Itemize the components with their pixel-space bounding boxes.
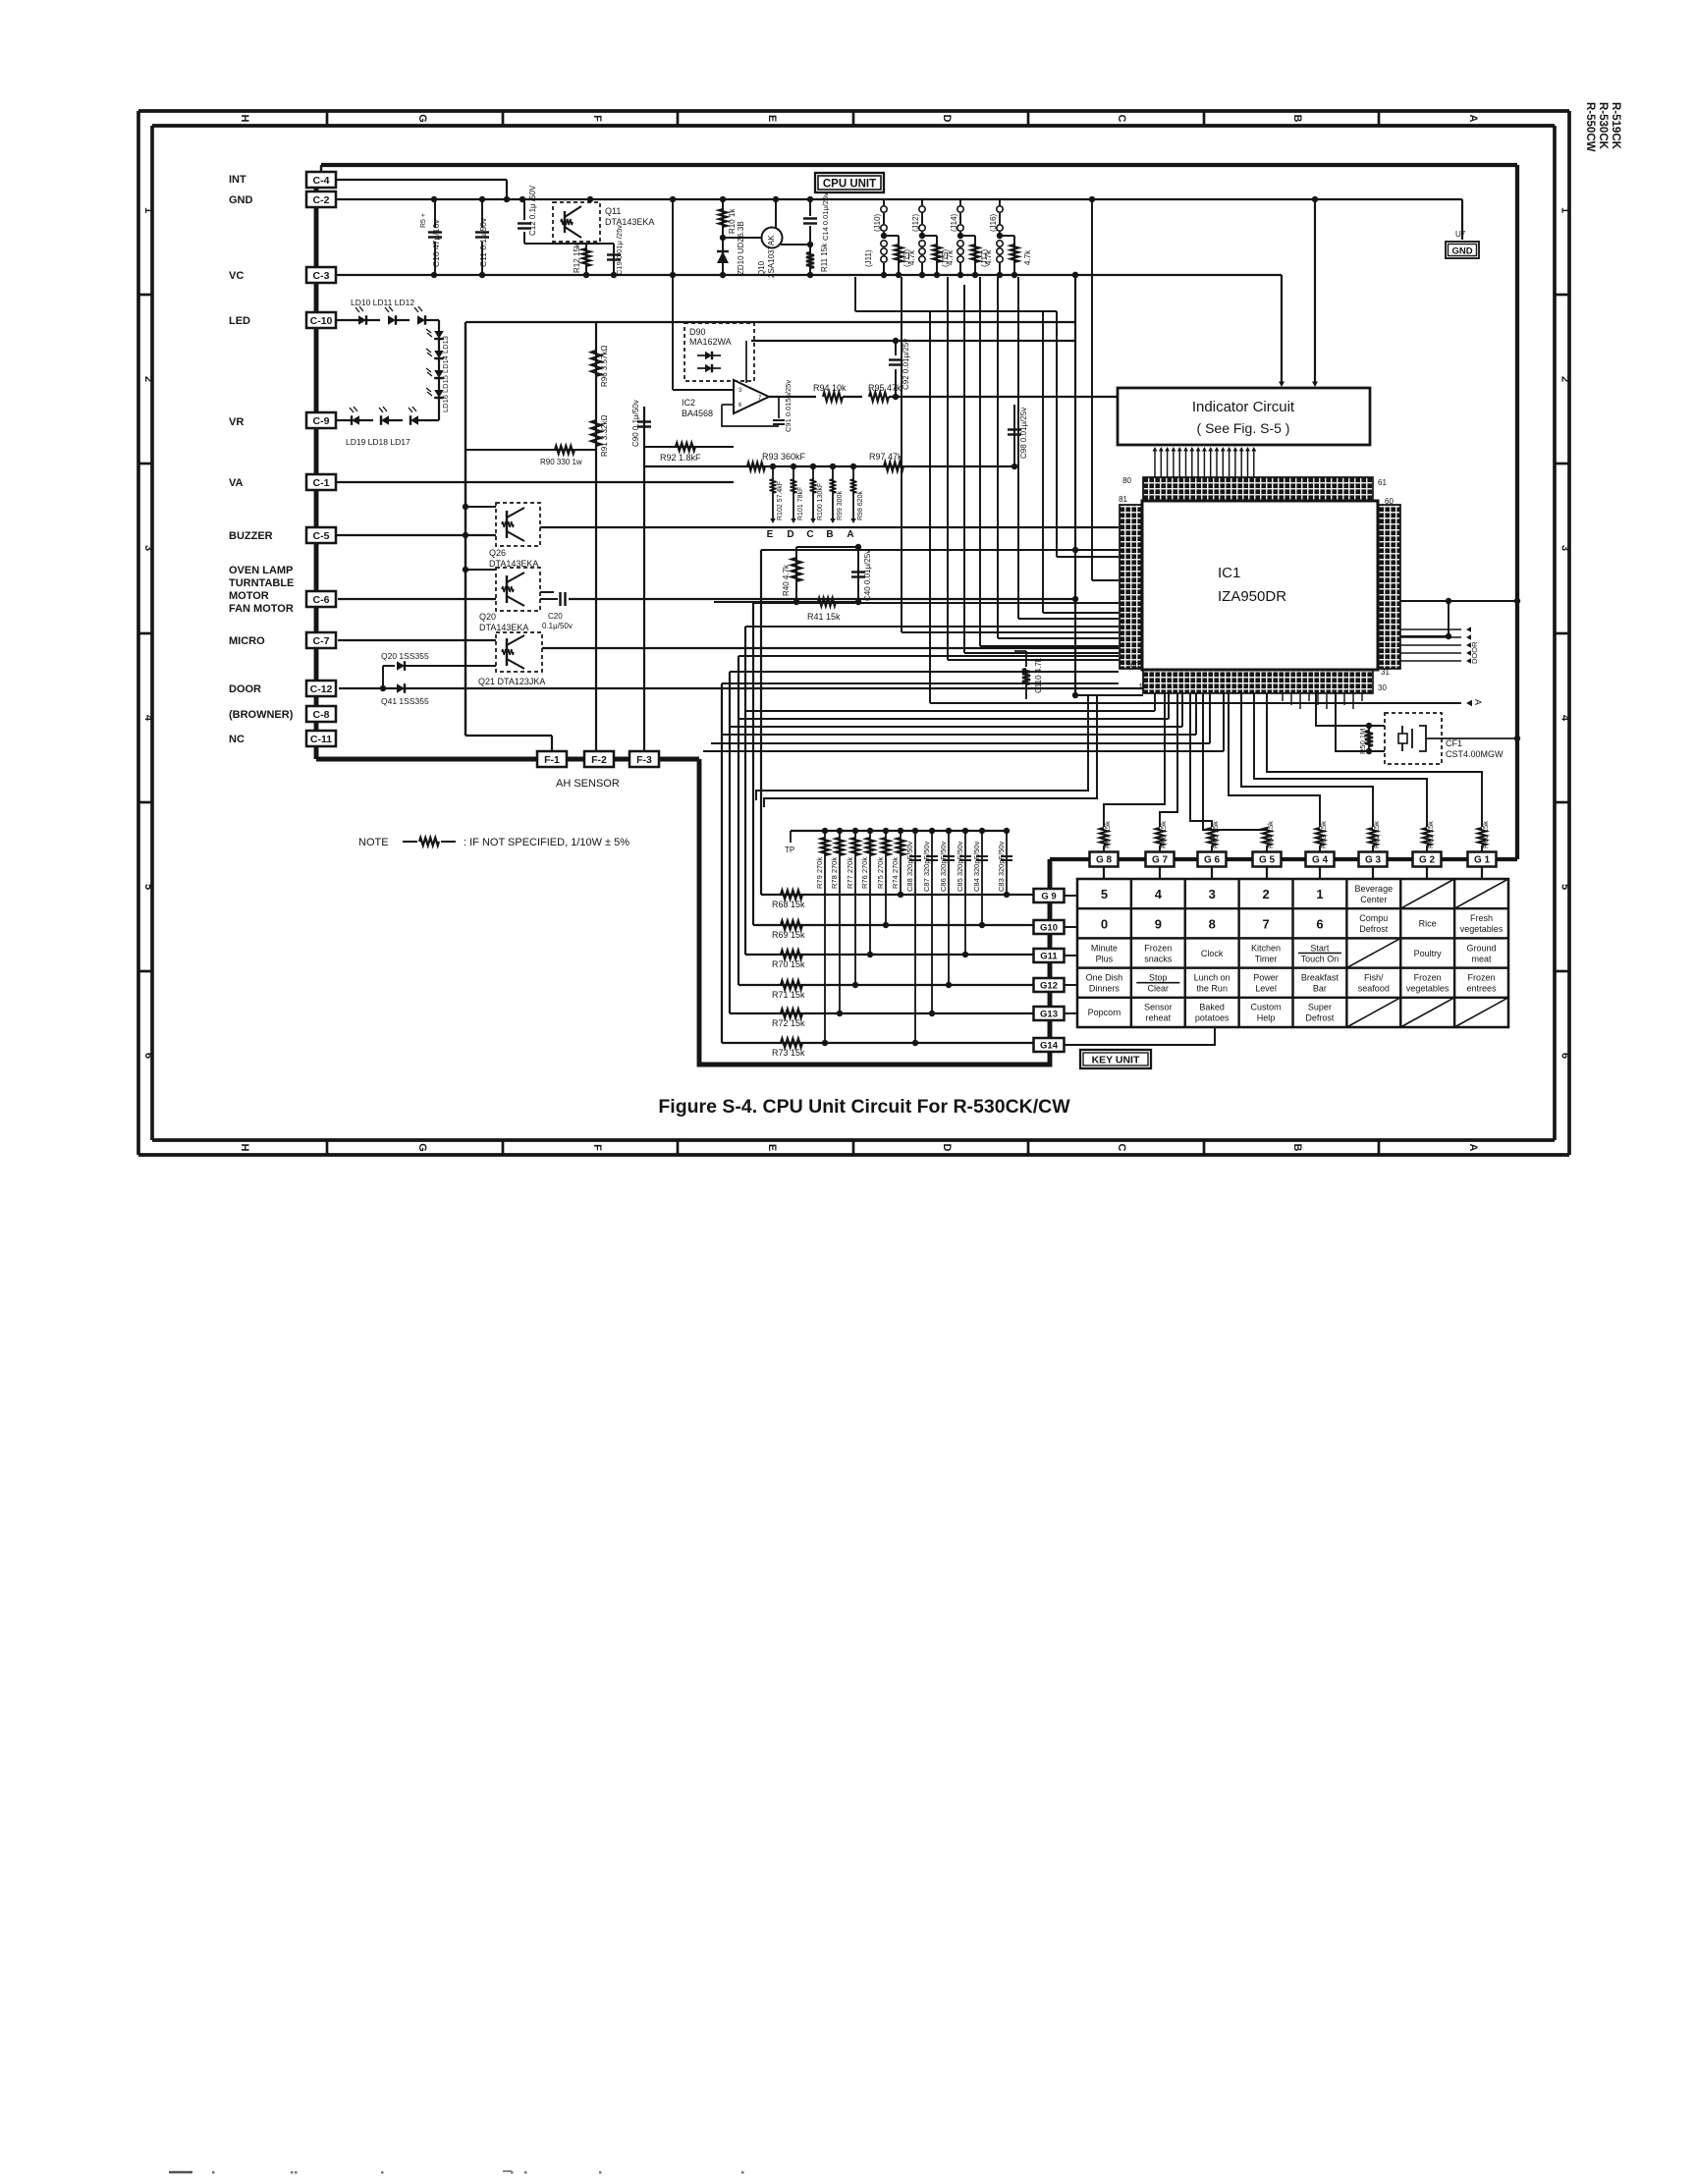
svg-text:Rice: Rice	[1419, 919, 1437, 929]
svg-text:DOOR: DOOR	[1470, 641, 1479, 664]
svg-text:vegetables: vegetables	[1406, 984, 1449, 994]
svg-text:Power: Power	[1253, 973, 1279, 983]
svg-text:C-4: C-4	[313, 175, 330, 187]
svg-text:C-5: C-5	[313, 530, 330, 542]
svg-text:MICRO: MICRO	[229, 635, 265, 647]
svg-text:: IF NOT SPECIFIED, 1/10W ± 5: : IF NOT SPECIFIED, 1/10W ± 5%	[464, 837, 629, 848]
svg-text:C: C	[1116, 1144, 1127, 1152]
svg-text:R94 10k: R94 10k	[813, 383, 847, 393]
svg-text:F-1: F-1	[544, 754, 560, 766]
svg-text:R11 15k: R11 15k	[820, 243, 829, 272]
svg-text:R67 15k: R67 15k	[1103, 821, 1112, 848]
svg-text:DTA143EKA: DTA143EKA	[479, 623, 528, 632]
svg-text:2SA1037AK: 2SA1037AK	[767, 235, 776, 278]
svg-text:CF1: CF1	[1446, 738, 1462, 748]
svg-text:61: 61	[1378, 478, 1387, 487]
svg-text:G13: G13	[1040, 1009, 1058, 1019]
svg-text:F: F	[591, 115, 603, 122]
svg-text:(J16): (J16)	[989, 213, 998, 232]
svg-text:Stop: Stop	[1149, 973, 1168, 983]
svg-text:R5 +: R5 +	[420, 213, 427, 228]
svg-text:E: E	[767, 529, 774, 540]
svg-text:C: C	[1116, 115, 1127, 123]
svg-text:2: 2	[1262, 887, 1269, 901]
svg-text:C40 0.01μ/25v: C40 0.01μ/25v	[863, 550, 872, 601]
svg-text:VA: VA	[229, 477, 244, 489]
svg-text:GND: GND	[229, 194, 253, 206]
svg-text:Super: Super	[1308, 1003, 1332, 1012]
svg-text:7: 7	[1262, 916, 1269, 931]
svg-text:60: 60	[1385, 497, 1394, 506]
svg-text:C-2: C-2	[313, 194, 330, 206]
svg-text:5: 5	[1559, 884, 1571, 890]
svg-text:One Dish: One Dish	[1086, 973, 1123, 983]
svg-text:0: 0	[1101, 916, 1108, 931]
svg-text:seafood: seafood	[1358, 984, 1390, 994]
svg-text:R61 15k: R61 15k	[1426, 821, 1435, 848]
svg-text:R79 270k: R79 270k	[815, 857, 824, 889]
svg-text:Ground: Ground	[1467, 943, 1497, 953]
svg-text:C-6: C-6	[313, 594, 330, 606]
svg-text:OVEN LAMP: OVEN LAMP	[229, 565, 293, 576]
svg-text:R71 15k: R71 15k	[772, 990, 805, 1000]
svg-text:2: 2	[142, 376, 154, 382]
svg-text:D90: D90	[689, 327, 706, 337]
svg-text:R75 270k: R75 270k	[876, 857, 885, 889]
svg-text:R69 15k: R69 15k	[772, 930, 805, 940]
svg-text:G10: G10	[1040, 922, 1058, 933]
svg-text:(J14): (J14)	[950, 213, 958, 232]
svg-text:LED: LED	[229, 315, 250, 327]
svg-text:potatoes: potatoes	[1195, 1013, 1230, 1023]
svg-text:R91 3.32kΩ: R91 3.32kΩ	[600, 415, 609, 457]
svg-text:B: B	[1291, 115, 1303, 123]
svg-text:Defrost: Defrost	[1305, 1013, 1335, 1023]
svg-text:C-11: C-11	[310, 734, 332, 745]
svg-text:R40 4.7k: R40 4.7k	[782, 564, 791, 596]
svg-text:snacks: snacks	[1144, 954, 1173, 963]
svg-text:(BROWNER): (BROWNER)	[229, 709, 294, 721]
svg-text:R10 1k: R10 1k	[728, 208, 737, 234]
svg-text:C110 4.7k: C110 4.7k	[1034, 657, 1043, 693]
svg-text:4: 4	[1559, 715, 1571, 722]
svg-text:KEY UNIT: KEY UNIT	[1092, 1055, 1140, 1066]
svg-text:IC2: IC2	[682, 398, 695, 408]
svg-text:Clock: Clock	[1201, 949, 1224, 958]
svg-text:R65 15k: R65 15k	[1211, 821, 1220, 848]
svg-text:C-1: C-1	[313, 477, 330, 489]
svg-text:Q20 1SS355: Q20 1SS355	[381, 651, 429, 661]
svg-text:F-2: F-2	[591, 754, 607, 766]
svg-text:Q10: Q10	[757, 260, 766, 276]
svg-text:Indicator Circuit: Indicator Circuit	[1192, 399, 1295, 415]
svg-text:R60 15k: R60 15k	[1481, 821, 1490, 848]
svg-text:R68 15k: R68 15k	[772, 900, 805, 909]
svg-text:NOTE: NOTE	[358, 837, 389, 848]
svg-text:IC1: IC1	[1218, 565, 1240, 581]
svg-text:Frozen: Frozen	[1468, 973, 1496, 983]
svg-text:80: 80	[1122, 476, 1131, 485]
svg-text:B: B	[1291, 1144, 1303, 1152]
svg-text:1: 1	[1316, 887, 1323, 901]
svg-text:A: A	[1473, 699, 1483, 705]
svg-text:160: 160	[1126, 661, 1140, 670]
svg-text:entrees: entrees	[1467, 984, 1498, 994]
svg-text:F-3: F-3	[636, 754, 652, 766]
svg-text:BA4568: BA4568	[682, 409, 713, 418]
svg-text:Help: Help	[1257, 1013, 1276, 1023]
svg-text:G 3: G 3	[1365, 855, 1382, 866]
svg-text:R76 270k: R76 270k	[860, 857, 869, 889]
svg-text:IZA950DR: IZA950DR	[1218, 588, 1286, 605]
svg-text:C-7: C-7	[313, 635, 330, 647]
svg-text:C83 320pF/50v: C83 320pF/50v	[997, 841, 1006, 892]
svg-text:D: D	[787, 529, 793, 540]
svg-text:Center: Center	[1360, 895, 1387, 904]
svg-text:LD19 LD18 LD17: LD19 LD18 LD17	[346, 437, 410, 447]
svg-text:C-9: C-9	[313, 415, 330, 427]
svg-text:C11 0.1μ/50v: C11 0.1μ/50v	[478, 217, 488, 267]
svg-text:AH SENSOR: AH SENSOR	[556, 778, 620, 790]
svg-text:DOOR: DOOR	[229, 683, 261, 695]
svg-text:R78 270k: R78 270k	[830, 857, 839, 889]
svg-text:R-519CK: R-519CK	[1610, 102, 1621, 150]
svg-text:C91 0.015μ/25v: C91 0.015μ/25v	[784, 380, 793, 432]
svg-text:E: E	[766, 115, 778, 122]
svg-text:Baked: Baked	[1199, 1003, 1225, 1012]
svg-text:A: A	[1467, 115, 1479, 123]
svg-text:Frozen: Frozen	[1144, 943, 1172, 953]
svg-text:9: 9	[1155, 916, 1162, 931]
svg-text:Q26: Q26	[489, 548, 506, 558]
svg-text:(J12): (J12)	[911, 213, 920, 232]
svg-text:R97 47k: R97 47k	[869, 452, 902, 462]
svg-text:F: F	[591, 1144, 603, 1151]
svg-text:Dinners: Dinners	[1089, 984, 1121, 994]
svg-text:R90 330 1w: R90 330 1w	[540, 458, 582, 466]
svg-text:4: 4	[142, 715, 154, 722]
svg-text:C12 0.1μ /50V: C12 0.1μ /50V	[528, 185, 537, 236]
svg-text:B: B	[826, 529, 833, 540]
svg-text:R98 620k: R98 620k	[857, 491, 864, 520]
svg-text:G 9: G 9	[1041, 891, 1056, 901]
svg-text:C-3: C-3	[313, 270, 330, 282]
svg-text:TP: TP	[785, 846, 794, 854]
svg-text:Q41 1SS355: Q41 1SS355	[381, 696, 429, 706]
svg-text:R66 15k: R66 15k	[1159, 821, 1168, 848]
svg-text:G11: G11	[1040, 951, 1058, 961]
svg-text:R102 57.4kF: R102 57.4kF	[777, 481, 784, 520]
svg-text:C88 320pF/50v: C88 320pF/50v	[905, 841, 914, 892]
svg-text:G 7: G 7	[1152, 855, 1169, 866]
svg-text:R93 360kF: R93 360kF	[762, 452, 806, 462]
svg-text:4: 4	[1155, 887, 1163, 901]
svg-text:5: 5	[142, 884, 154, 890]
svg-text:C92 0.01μ/25v: C92 0.01μ/25v	[902, 339, 910, 390]
svg-text:Q21 DTA123JKA: Q21 DTA123JKA	[478, 677, 545, 686]
svg-text:R92 1.8kF: R92 1.8kF	[660, 453, 701, 463]
svg-text:2: 2	[1559, 376, 1571, 382]
svg-text:R74 270k: R74 270k	[891, 857, 900, 889]
svg-text:G 8: G 8	[1096, 855, 1113, 866]
svg-text:G: G	[416, 1143, 428, 1152]
svg-text:Bar: Bar	[1313, 984, 1327, 994]
svg-text:R101 78kF: R101 78kF	[797, 487, 804, 520]
svg-text:R50 1M: R50 1M	[1358, 729, 1367, 754]
svg-text:Level: Level	[1255, 984, 1277, 994]
svg-text:C86 320pF/50v: C86 320pF/50v	[939, 841, 948, 892]
svg-text:ZD10 UDZ6.3B: ZD10 UDZ6.3B	[737, 221, 745, 275]
svg-text:R63 15k: R63 15k	[1319, 821, 1328, 848]
svg-text:NC: NC	[229, 734, 245, 745]
svg-text:U7: U7	[1455, 230, 1466, 239]
svg-text:D: D	[941, 115, 953, 123]
svg-text:R64 15k: R64 15k	[1266, 821, 1275, 848]
svg-text:D: D	[941, 1144, 953, 1152]
svg-text:C98 0.01μ/25v: C98 0.01μ/25v	[1019, 408, 1028, 459]
svg-text:GND: GND	[1451, 246, 1472, 257]
svg-text:30: 30	[1378, 683, 1387, 692]
svg-text:81: 81	[1119, 495, 1127, 504]
svg-text:R77 270k: R77 270k	[846, 857, 854, 889]
svg-text:C-12: C-12	[310, 683, 333, 695]
svg-text:(J15): (J15)	[941, 248, 950, 267]
svg-text:6: 6	[1559, 1053, 1571, 1059]
svg-text:C84 320pF/50v: C84 320pF/50v	[972, 841, 981, 892]
svg-text:Sensor: Sensor	[1144, 1003, 1173, 1012]
svg-text:31: 31	[1381, 668, 1390, 677]
svg-text:Poultry: Poultry	[1414, 949, 1443, 958]
svg-text:Breakfast: Breakfast	[1301, 973, 1340, 983]
svg-text:Fresh: Fresh	[1470, 913, 1493, 923]
svg-text:R-530CK: R-530CK	[1597, 102, 1609, 150]
svg-text:R73 15k: R73 15k	[772, 1048, 805, 1058]
svg-text:LD16 LD15 LD14 LD13: LD16 LD15 LD14 LD13	[441, 336, 450, 412]
svg-text:Kitchen: Kitchen	[1251, 943, 1281, 953]
svg-text:Plus: Plus	[1096, 954, 1114, 963]
svg-text:Frozen: Frozen	[1414, 973, 1442, 983]
svg-text:3: 3	[1209, 887, 1216, 901]
svg-text:Custom: Custom	[1251, 1003, 1282, 1012]
svg-text:H: H	[239, 1144, 250, 1152]
svg-text:G 4: G 4	[1312, 855, 1329, 866]
svg-text:G 2: G 2	[1419, 855, 1436, 866]
svg-text:R62 15k: R62 15k	[1372, 821, 1381, 848]
svg-text:R99 300k: R99 300k	[837, 491, 844, 520]
svg-text:G12: G12	[1040, 980, 1058, 991]
svg-text:VR: VR	[229, 416, 244, 428]
svg-text:(J10): (J10)	[873, 213, 882, 232]
svg-text:R-550CW: R-550CW	[1584, 102, 1596, 152]
svg-text:Compu: Compu	[1359, 913, 1388, 923]
svg-text:C19 0.01μ /25v: C19 0.01μ /25v	[615, 225, 624, 275]
svg-text:A: A	[847, 529, 853, 540]
svg-text:Minute: Minute	[1091, 943, 1118, 953]
svg-text:VC: VC	[229, 270, 244, 282]
svg-text:C87 320pF/50v: C87 320pF/50v	[922, 841, 931, 892]
svg-text:INT: INT	[229, 174, 246, 186]
svg-text:G14: G14	[1040, 1040, 1059, 1051]
svg-text:Start: Start	[1310, 943, 1330, 953]
svg-text:E: E	[766, 1144, 778, 1151]
svg-text:8: 8	[1209, 916, 1216, 931]
svg-text:C: C	[806, 529, 813, 540]
svg-text:C90 0.1μ/50v: C90 0.1μ/50v	[631, 400, 640, 447]
svg-text:Beverage: Beverage	[1355, 884, 1394, 894]
svg-text:R70 15k: R70 15k	[772, 959, 805, 969]
svg-text:C14 0.01μ/25v: C14 0.01μ/25v	[821, 192, 830, 241]
svg-text:6: 6	[1316, 916, 1323, 931]
svg-text:3: 3	[1559, 545, 1571, 551]
svg-text:3: 3	[142, 545, 154, 551]
svg-text:6: 6	[142, 1053, 154, 1059]
svg-text:(J17): (J17)	[980, 248, 989, 267]
svg-text:(J11): (J11)	[864, 249, 873, 267]
svg-text:1: 1	[1559, 207, 1571, 213]
svg-text:R100 130kF: R100 130kF	[817, 483, 824, 520]
svg-text:( See Fig. S-5 ): ( See Fig. S-5 )	[1197, 420, 1290, 436]
svg-text:FAN MOTOR: FAN MOTOR	[229, 603, 294, 615]
svg-text:Q20: Q20	[479, 612, 496, 622]
svg-text:1: 1	[142, 207, 154, 213]
svg-text:A: A	[1467, 1144, 1479, 1152]
svg-text:Q11: Q11	[605, 206, 621, 216]
svg-text:G: G	[416, 114, 428, 123]
svg-text:CST4.00MGW: CST4.00MGW	[1446, 749, 1504, 759]
svg-text:Timer: Timer	[1255, 954, 1278, 963]
svg-text:R72 15k: R72 15k	[772, 1018, 805, 1028]
svg-text:meat: meat	[1472, 954, 1493, 963]
svg-text:Lunch on: Lunch on	[1194, 973, 1230, 983]
svg-text:Popcorn: Popcorn	[1088, 1008, 1121, 1017]
svg-text:C10 47μ/16v: C10 47μ/16v	[431, 219, 441, 267]
svg-text:4.7k: 4.7k	[1023, 249, 1032, 265]
svg-text:MOTOR: MOTOR	[229, 590, 269, 602]
svg-text:Clear: Clear	[1148, 984, 1170, 994]
svg-text:G 1: G 1	[1474, 855, 1491, 866]
svg-text:the Run: the Run	[1196, 984, 1228, 994]
svg-text:R12 15k: R12 15k	[573, 243, 581, 273]
svg-text:Figure S-4. CPU Unit Circuit: Figure S-4. CPU Unit Circuit For R-530CK…	[658, 1096, 1070, 1118]
svg-text:C-10: C-10	[310, 315, 333, 327]
svg-text:vegetables: vegetables	[1460, 924, 1504, 934]
svg-text:1: 1	[1139, 682, 1144, 691]
svg-text:CPU UNIT: CPU UNIT	[823, 179, 876, 191]
svg-text:G 6: G 6	[1204, 855, 1221, 866]
svg-text:Touch On: Touch On	[1301, 954, 1340, 963]
svg-text:Fish/: Fish/	[1364, 973, 1384, 983]
svg-text:(J13): (J13)	[902, 248, 911, 267]
svg-text:LD10 LD11 LD12: LD10 LD11 LD12	[351, 298, 414, 307]
svg-text:C85 320pF/50v: C85 320pF/50v	[956, 841, 964, 892]
svg-text:Defrost: Defrost	[1359, 924, 1389, 934]
svg-text:C-8: C-8	[313, 709, 330, 721]
svg-text:MA162WA: MA162WA	[689, 337, 732, 347]
svg-text:C20: C20	[548, 612, 563, 621]
svg-text:DTA143EKA: DTA143EKA	[605, 217, 654, 227]
svg-text:5: 5	[1101, 887, 1108, 901]
svg-text:reheat: reheat	[1146, 1013, 1172, 1023]
svg-text:H: H	[239, 115, 250, 123]
svg-text:0.1μ/50v: 0.1μ/50v	[542, 622, 573, 630]
svg-text:G 5: G 5	[1259, 855, 1276, 866]
svg-text:R41 15k: R41 15k	[807, 612, 841, 622]
svg-text:R96 3.57kΩ: R96 3.57kΩ	[600, 346, 609, 387]
svg-text:TURNTABLE: TURNTABLE	[229, 577, 294, 589]
svg-text:BUZZER: BUZZER	[229, 530, 273, 542]
